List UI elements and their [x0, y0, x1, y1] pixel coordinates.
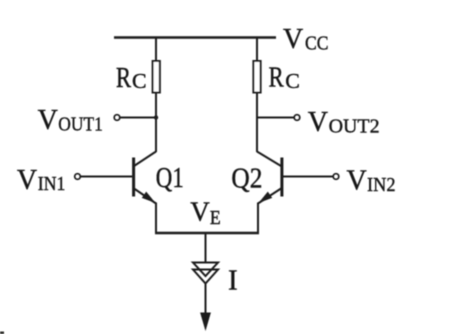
wire Q1 emitter down	[155, 203, 157, 235]
label VIN1	[17, 165, 66, 196]
wire VIN2 stub	[283, 176, 333, 178]
label VOUT1	[38, 105, 103, 136]
label RC2	[269, 61, 300, 93]
terminal circle VIN1	[75, 174, 81, 180]
transistor Q1 emitter lead	[134, 189, 156, 204]
svg-text:CC: CC	[305, 33, 329, 55]
label VCC	[283, 24, 329, 55]
svg-text:R: R	[116, 62, 132, 94]
wire left collector mid	[155, 93, 157, 153]
node junction dot	[154, 115, 158, 119]
wire VE horizontal	[155, 232, 259, 234]
svg-text:V: V	[17, 165, 37, 196]
transistor Q2 emitter arrow	[259, 192, 273, 203]
wire left collector top	[155, 38, 157, 62]
svg-text:OUT1: OUT1	[58, 114, 103, 136]
svg-text:IN1: IN1	[38, 173, 66, 195]
svg-text:R: R	[269, 61, 285, 93]
transistor Q1 base bar	[132, 158, 135, 197]
svg-text:IN2: IN2	[367, 174, 396, 196]
terminal circle VOUT2	[294, 115, 300, 121]
wire current source down	[205, 283, 207, 314]
transistor Q2 emitter lead	[258, 189, 281, 204]
svg-text:Q2: Q2	[231, 164, 262, 195]
VCC rail	[114, 36, 276, 38]
svg-text:Q1: Q1	[156, 163, 184, 194]
svg-text:C: C	[132, 69, 147, 93]
wire VE tap down	[205, 233, 207, 263]
resistor RC2 body	[253, 61, 260, 93]
svg-text:E: E	[210, 207, 221, 229]
transistor Q2 collector lead	[257, 152, 281, 167]
wire right collector top	[256, 38, 258, 62]
svg-text:I: I	[228, 265, 238, 297]
resistor RC1 body	[153, 61, 160, 93]
current source I triangle upper	[193, 263, 218, 277]
label RC1	[116, 62, 147, 94]
svg-text:V: V	[308, 107, 328, 138]
wire right collector mid	[256, 93, 258, 153]
wire Q2 emitter down	[257, 203, 259, 235]
svg-text:V: V	[190, 196, 210, 226]
svg-text:V: V	[347, 166, 367, 197]
wire VOUT2 stub	[257, 117, 294, 119]
current source I triangle lower	[193, 270, 218, 284]
label VIN2	[347, 166, 396, 197]
svg-text:V: V	[283, 24, 303, 55]
transistor Q2 base bar	[280, 158, 283, 197]
svg-text:OUT2: OUT2	[329, 116, 380, 138]
speck bottom-left	[0, 332, 4, 334]
label VOUT2	[308, 107, 380, 138]
svg-text:C: C	[285, 69, 300, 93]
transistor Q1 emitter arrow	[142, 192, 156, 203]
arrowhead current direction	[200, 313, 211, 332]
label VE	[190, 196, 220, 229]
terminal circle VIN2	[333, 174, 339, 180]
transistor Q1 collector lead	[134, 152, 156, 167]
terminal circle VOUT1	[114, 115, 120, 121]
svg-text:V: V	[38, 105, 58, 136]
wire VOUT1 stub	[120, 117, 156, 119]
wire VIN1 stub	[80, 176, 132, 178]
